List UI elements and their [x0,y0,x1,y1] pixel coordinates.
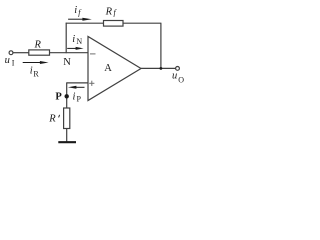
current arrow i_N [67,47,83,50]
svg-text:i: i [72,34,75,45]
inverting input minus marker [90,53,96,55]
svg-text:u: u [5,55,10,66]
svg-text:I: I [12,58,15,67]
output terminal u_O circle [176,67,180,71]
svg-text:R: R [33,69,39,78]
wire resistor R to op-amp inverting input, node N [50,52,89,54]
wire R' to ground [66,129,68,142]
svg-text:i: i [30,65,33,76]
svg-text:A: A [104,63,112,74]
wire corner down to node P and R' [66,82,68,108]
svg-text:P: P [55,91,62,102]
feedback riser wire from node N up [65,23,67,54]
non-inverting input wire from node P corner [67,82,88,84]
input terminal u_I circle [9,51,13,55]
wire input terminal to resistor R [13,52,29,54]
svg-text:u: u [172,71,177,82]
svg-text:R: R [105,7,113,18]
op-amp U1 triangle [88,37,141,101]
ground [58,141,76,143]
feedback resistor R_f [104,21,124,27]
svg-text:R: R [48,114,56,125]
top feedback wire right segment [123,22,161,24]
svg-text:i: i [73,92,76,103]
svg-text:N: N [63,57,71,68]
top feedback wire left segment [66,22,104,24]
svg-text:R: R [34,39,42,50]
non-inverting input plus marker [89,81,94,86]
resistor R [29,50,50,55]
svg-text:P: P [77,95,82,104]
current arrow i_R [23,61,49,64]
current arrow i_f [68,18,92,21]
svg-text:i: i [74,5,77,16]
svg-text:O: O [178,76,184,85]
output wire from op-amp apex [141,67,176,69]
resistor R' [64,108,70,129]
output junction dot [160,67,163,70]
node P junction dot [65,94,69,98]
svg-text:N: N [76,37,82,46]
current arrow i_P (pointing left) [68,86,85,89]
feedback drop wire to output [160,23,162,68]
